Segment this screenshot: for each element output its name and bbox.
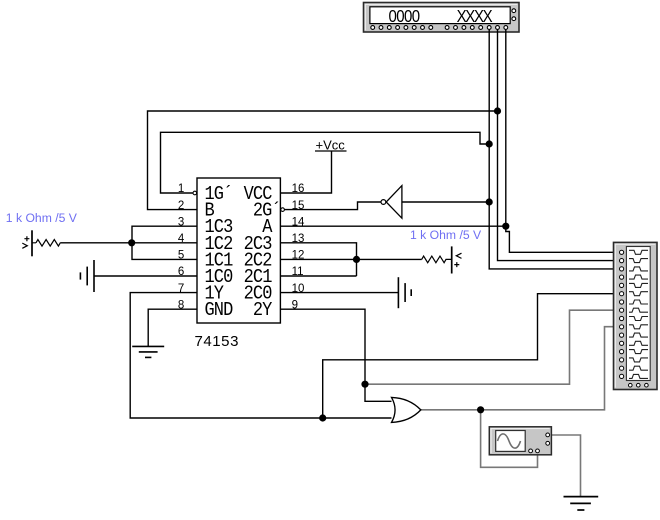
junction dot 2Y node	[361, 381, 368, 388]
wire IC pin10 to ground	[281, 292, 398, 294]
svg-text:10: 10	[292, 283, 305, 295]
ground at IC pin8	[132, 346, 164, 357]
svg-text:2: 2	[178, 200, 184, 212]
svg-text:1: 1	[178, 183, 184, 195]
word generator XWG1	[364, 3, 520, 33]
svg-text:9: 9	[292, 299, 298, 311]
wire IC pin12 to resistor R2	[281, 258, 422, 260]
svg-text:+Vcc: +Vcc	[316, 138, 346, 153]
svg-text:8: 8	[178, 299, 184, 311]
ground at IC pin10 (pointing right)	[398, 277, 411, 308]
wire IC pin9 2Y down to OR gate input	[281, 309, 392, 401]
wire IC pin4 to resistor R1	[61, 242, 197, 244]
oscilloscope XSC1	[489, 427, 551, 455]
svg-text:7: 7	[178, 283, 184, 295]
junction dot pins 13-12-11	[353, 256, 360, 263]
inverter U2 (pointing left)	[381, 186, 402, 219]
wire IC pin7 1Y to OR gate input	[130, 293, 391, 418]
wire inverter output to IC pin15	[285, 202, 381, 210]
junction dot pins 3-4-5	[128, 239, 135, 246]
+Vcc power symbol	[315, 138, 347, 153]
svg-text:15: 15	[292, 200, 305, 212]
svg-text:12: 12	[292, 250, 305, 262]
svg-text:6: 6	[178, 266, 184, 278]
svg-text:2Y: 2Y	[253, 300, 273, 321]
junction dot inverter input	[486, 198, 493, 205]
OR gate U3	[392, 397, 421, 422]
wire IC pin13	[281, 243, 357, 276]
junction dot 1Y node	[319, 414, 326, 421]
junction dot node A	[502, 223, 509, 230]
ground at oscilloscope	[564, 497, 599, 510]
wire 2Y node to logic analyzer row8	[365, 310, 614, 384]
wire inverter input	[402, 201, 489, 203]
V+ source for R2	[452, 246, 462, 273]
svg-text:1 k Ohm /5 V: 1 k Ohm /5 V	[6, 211, 78, 225]
svg-text:16: 16	[292, 183, 305, 195]
IC U1 74153	[178, 178, 305, 350]
wire IC pin11	[281, 275, 357, 277]
svg-text:1 k Ohm /5 V: 1 k Ohm /5 V	[410, 228, 482, 242]
svg-text:3: 3	[178, 216, 184, 228]
wire node 1G: second loop to IC pin1	[161, 132, 490, 193]
svg-text:74153: 74153	[195, 333, 239, 350]
junction dot OR output node	[477, 406, 484, 413]
wire node B: top loop to IC pin2	[148, 111, 498, 210]
wire OR output to oscilloscope input	[481, 410, 538, 468]
wire 1Y node to logic analyzer row6	[323, 294, 614, 418]
wire word-gen bit15 to logic analyzer row1	[506, 29, 614, 252]
wire IC pin8 GND to ground	[148, 309, 197, 346]
resistor R1 1k	[32, 240, 61, 247]
wire word-gen bit14 to logic analyzer row2	[498, 29, 614, 260]
wire IC pin3 pin5 bracket	[132, 226, 197, 259]
wire OR output to logic analyzer row10	[421, 327, 614, 410]
svg-text:4: 4	[178, 233, 185, 245]
svg-text:13: 13	[292, 233, 305, 245]
ground at IC pin6 (pointing left)	[80, 260, 94, 292]
wire word-gen bit13 to logic analyzer row3	[489, 29, 613, 269]
logic analyzer XLA1	[614, 242, 658, 389]
wire oscilloscope to ground	[551, 435, 580, 496]
svg-text:XXXX: XXXX	[457, 7, 493, 26]
resistor R2 1k	[422, 256, 452, 263]
V+ source for R1	[22, 230, 32, 256]
wire IC pin16 to +Vcc	[281, 151, 332, 193]
svg-text:5: 5	[178, 250, 184, 262]
svg-text:11: 11	[292, 266, 304, 278]
wire IC pin14 A to right bus	[281, 225, 506, 227]
wire IC pin6 to ground	[94, 275, 197, 277]
svg-text:0000: 0000	[389, 7, 421, 26]
junction dot node B	[494, 107, 501, 114]
svg-text:GND: GND	[205, 300, 233, 321]
svg-text:14: 14	[292, 216, 305, 228]
junction dot node 1G	[486, 140, 493, 147]
